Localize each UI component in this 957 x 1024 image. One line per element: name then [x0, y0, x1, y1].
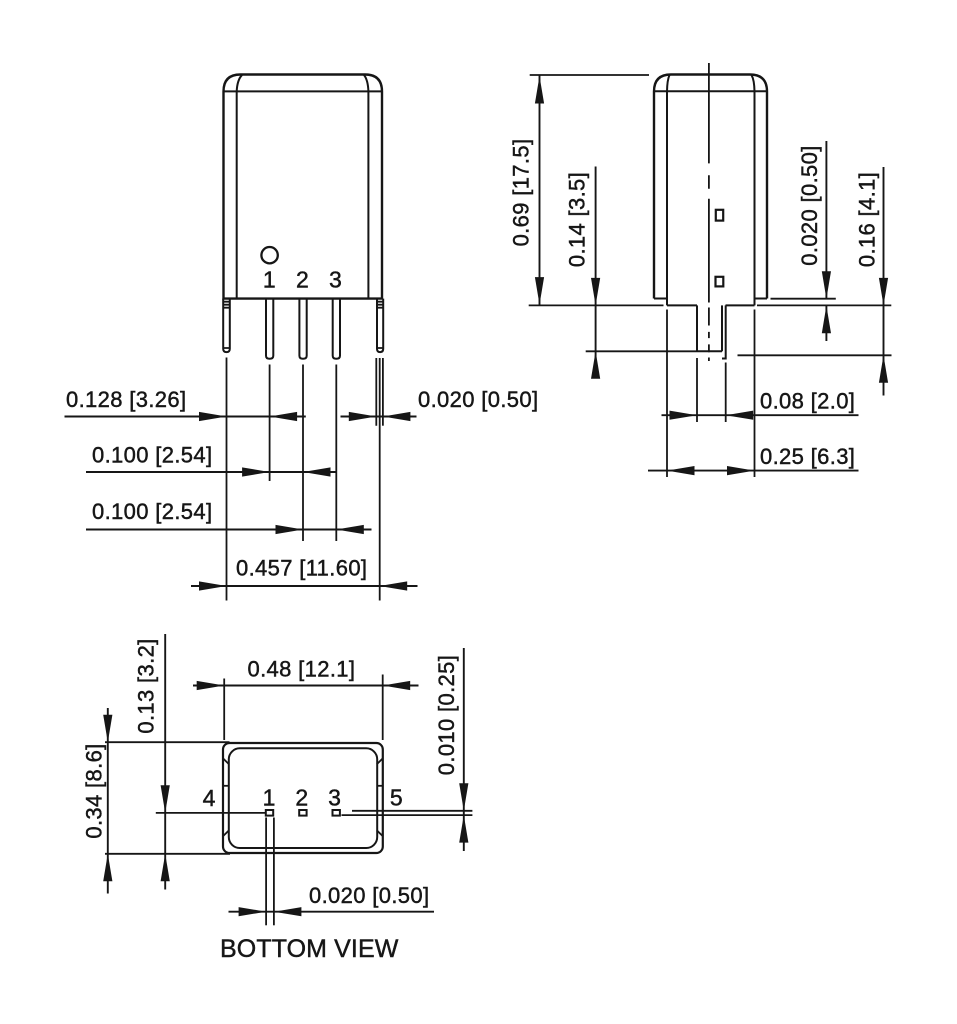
extension line side lead tip right	[738, 354, 892, 356]
extension line side lead right edge below	[725, 363, 727, 423]
arrow right at pad 1 left edge	[239, 907, 267, 916]
svg-text:0.16 [4.1]: 0.16 [4.1]	[855, 172, 880, 267]
extension line pin 1 center	[269, 365, 271, 482]
extension line right side-lead center	[379, 358, 381, 601]
arrow down at step bottom (0.16)	[879, 278, 888, 306]
extension line side step right corner below	[754, 310, 756, 478]
side view lead right edge outer	[722, 305, 726, 358]
arrow down at step bottom (0.14)	[591, 278, 600, 306]
dimension line 0.14 [3.5]	[595, 167, 597, 378]
extension line side step bottom right	[757, 304, 891, 306]
dimension line 0.100 [2.54] first	[86, 471, 336, 473]
extension line side body bottom right	[771, 298, 836, 300]
arrow right at pin 1 center	[242, 467, 270, 476]
arrow up at lead tip (0.16)	[879, 355, 888, 383]
svg-text:0.13 [3.2]: 0.13 [3.2]	[134, 638, 159, 733]
svg-text:3: 3	[329, 267, 342, 293]
extension line right side-lead right edge	[382, 358, 384, 426]
dimension line 0.48 [12.1]	[193, 685, 419, 687]
side view body left inner edge	[667, 75, 670, 305]
extension line bottom body top edge	[105, 741, 230, 743]
svg-text:BOTTOM VIEW: BOTTOM VIEW	[220, 935, 399, 963]
front view body right inner edge	[364, 75, 368, 298]
svg-text:0.69 [17.5]: 0.69 [17.5]	[509, 139, 534, 247]
svg-text:0.14 [3.5]: 0.14 [3.5]	[565, 172, 590, 267]
extension line pin 2 center	[302, 365, 304, 542]
front view pin 1 lead	[266, 299, 273, 359]
side view body outline	[654, 75, 767, 299]
dimension line 0.69 [17.5]	[539, 75, 541, 305]
arrow down at pad top edge (0.010)	[459, 783, 468, 811]
arrow up at pad bottom edge (0.010)	[459, 815, 468, 843]
side view bottom step left	[654, 299, 697, 306]
front view side lead left crimp marks	[223, 302, 230, 348]
front view pin 3 lead	[333, 299, 340, 359]
front view pin-1 marker circle	[261, 247, 277, 263]
arrow right at left side-lead center	[199, 581, 227, 590]
svg-text:0.457 [11.60]: 0.457 [11.60]	[236, 556, 367, 581]
arrow left at right side-lead center	[380, 581, 408, 590]
front view side lead left	[223, 299, 230, 353]
svg-text:2: 2	[296, 267, 309, 293]
front view side lead right	[377, 299, 383, 353]
extension line bottom body right edge up	[382, 675, 384, 741]
dimension line 0.020 [0.50] front	[341, 416, 417, 418]
svg-text:0.34 [8.6]: 0.34 [8.6]	[82, 743, 107, 838]
bottom view left edge tick lower	[223, 830, 229, 836]
extension line pad 1 left edge down	[265, 818, 267, 926]
dimension line 0.457 [11.60]	[191, 585, 418, 587]
dimension line 0.010 [0.25]	[463, 648, 465, 851]
side view lead right edge inner	[721, 305, 723, 351]
arrow up at body bottom (0.13)	[161, 854, 170, 882]
bottom view body inner outline	[229, 748, 377, 848]
dimension line 0.020 [0.50] side	[825, 141, 827, 341]
bottom view pad 1	[266, 810, 273, 816]
extension line bottom body left edge up	[223, 679, 225, 741]
svg-text:0.100 [2.54]: 0.100 [2.54]	[92, 499, 212, 524]
svg-text:0.100 [2.54]: 0.100 [2.54]	[92, 443, 212, 468]
svg-text:1: 1	[263, 784, 276, 810]
front view pin 2 lead	[299, 299, 306, 359]
side view pin window upper	[716, 210, 723, 221]
svg-text:0.128 [3.26]: 0.128 [3.26]	[66, 387, 186, 412]
svg-text:0.020 [0.50]: 0.020 [0.50]	[418, 387, 538, 412]
bottom view left edge tick middle	[223, 785, 229, 787]
side view center line	[708, 63, 710, 361]
svg-text:2: 2	[295, 784, 308, 810]
arrow down at body bottom (0.020 side)	[822, 271, 831, 299]
arrow right at right side-lead left edge	[349, 412, 377, 421]
arrow right at body left edge	[197, 681, 225, 690]
extension line side body top	[530, 74, 649, 76]
bottom view right edge tick lower	[377, 830, 383, 836]
extension line side step bottom left	[529, 304, 664, 306]
arrow right at lead left edge	[670, 411, 698, 420]
dimension line 0.020 [0.50] bottom	[229, 911, 435, 913]
svg-text:0.48 [12.1]: 0.48 [12.1]	[248, 657, 356, 682]
arrow left at step left corner	[667, 466, 695, 475]
side view body right inner edge	[752, 75, 755, 299]
svg-text:0.25 [6.3]: 0.25 [6.3]	[760, 444, 855, 469]
arrow left at pad 1 right edge	[274, 907, 302, 916]
side view bottom step right	[726, 299, 768, 306]
dimension line 0.13 [3.2]	[164, 634, 166, 890]
arrow right at pin 2 center	[276, 525, 304, 534]
arrow right at left side-lead center	[199, 412, 227, 421]
side view lead left edge	[696, 305, 698, 351]
bottom view right edge tick middle	[377, 785, 383, 787]
dimension line 0.34 [8.6]	[107, 708, 109, 894]
svg-text:3: 3	[328, 784, 341, 810]
svg-text:0.010 [0.25]: 0.010 [0.25]	[434, 655, 459, 775]
front view body outline	[224, 75, 383, 299]
arrow left at pin 3 center	[336, 525, 364, 534]
extension line pad 1 right edge down	[273, 818, 275, 926]
extension line pad row left	[156, 812, 266, 814]
extension line side lead bottom left	[586, 350, 697, 352]
svg-text:0.020 [0.50]: 0.020 [0.50]	[797, 145, 822, 265]
arrow down at pad row (0.13)	[161, 785, 170, 813]
arrow left at pin 1 center	[270, 412, 298, 421]
extension line pin 3 center	[335, 365, 337, 542]
extension line side lead left edge below	[696, 358, 698, 422]
arrow up at body bottom (0.34)	[103, 854, 112, 882]
side view pin window lower	[716, 277, 724, 287]
arrow left at lead right edge	[726, 411, 754, 420]
bottom view left edge tick upper	[223, 759, 229, 765]
arrow up at lead bottom (0.14)	[591, 351, 600, 379]
side view body top edge line	[654, 90, 767, 92]
bottom view body outer outline	[223, 743, 383, 853]
dimension line 0.100 [2.54] second	[86, 529, 372, 531]
dimension line 0.08 [2.0]	[662, 414, 859, 416]
front view body left inner edge	[237, 75, 242, 298]
front view body top edge line	[224, 90, 383, 92]
arrow up at body top	[535, 76, 544, 104]
svg-text:0.020 [0.50]: 0.020 [0.50]	[309, 883, 429, 908]
arrow right at step right corner	[727, 466, 755, 475]
arrow down at body top (0.34)	[103, 715, 112, 743]
extension line side step left corner below	[666, 310, 668, 478]
svg-text:5: 5	[390, 784, 403, 810]
svg-text:4: 4	[203, 785, 216, 811]
arrow left at right side-lead right edge	[383, 412, 411, 421]
bottom view pad 2	[299, 810, 306, 816]
extension line pad row right lower	[342, 814, 473, 816]
arrow left at body right edge	[383, 681, 411, 690]
extension line pad row right upper	[352, 810, 472, 812]
front view side lead right crimp marks	[377, 302, 383, 348]
bottom view right edge tick upper	[377, 759, 383, 765]
svg-text:0.08 [2.0]: 0.08 [2.0]	[760, 389, 855, 414]
extension line right side-lead left edge	[375, 358, 377, 426]
extension line bottom body bottom edge	[105, 853, 230, 855]
dimension line 0.128 [3.26]	[65, 416, 306, 418]
bottom view pad 3	[333, 810, 340, 816]
arrow up at step bottom (0.020 side)	[822, 306, 831, 334]
side view lead bottom	[697, 350, 722, 352]
dimension line 0.25 [6.3]	[648, 470, 859, 472]
arrow left at pin 2 center	[303, 467, 331, 476]
arrow down at step bottom	[535, 277, 544, 305]
svg-text:1: 1	[263, 267, 276, 293]
extension line left side-lead center	[226, 358, 228, 601]
dimension line 0.16 [4.1]	[883, 167, 885, 396]
